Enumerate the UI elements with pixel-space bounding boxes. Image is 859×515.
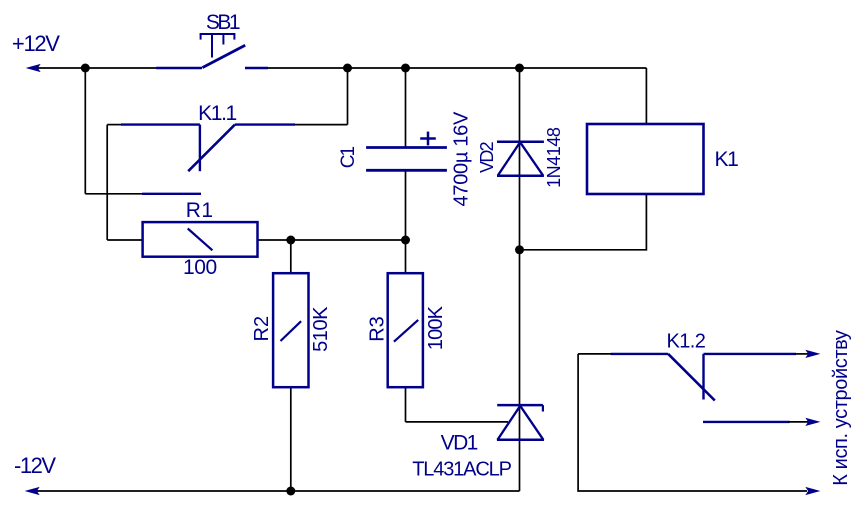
svg-text:510K: 510K [310, 306, 332, 352]
junction top rail at K1.1 branch [343, 64, 352, 73]
svg-text:R3: R3 [367, 316, 389, 342]
resistor R3 [388, 273, 423, 387]
svg-text:R2: R2 [251, 316, 273, 342]
wire vertical to R1 [106, 125, 108, 240]
wire K1.2 NC lead to arrow [795, 353, 808, 355]
svg-text:SB1: SB1 [206, 11, 240, 34]
junction K1 return at VD column [515, 245, 524, 254]
svg-text:К исп. устройству: К исп. устройству [830, 330, 852, 486]
svg-text:K1.2: K1.2 [667, 331, 706, 353]
svg-text:-12V: -12V [14, 453, 56, 478]
wire vertical K1.1 to top rail [347, 68, 349, 125]
power arrow +12V [28, 65, 40, 72]
switch SB1 [156, 34, 268, 68]
junction mid rail at R3 [401, 236, 410, 245]
relay contact K1.1 [121, 125, 295, 194]
svg-text:TL431ACLP: TL431ACLP [412, 458, 511, 480]
junction top rail at left vertical [81, 64, 90, 73]
wire VD2 VD1 vertical column [519, 68, 521, 491]
wire R2 bottom lead [290, 387, 292, 491]
shunt regulator VD1 [497, 405, 544, 440]
svg-text:VD2: VD2 [477, 141, 497, 173]
wire bottom rail [37, 490, 520, 492]
wire R3 bottom lead [405, 387, 407, 422]
svg-text:100: 100 [183, 256, 217, 279]
svg-text:VD1: VD1 [441, 431, 478, 454]
wire C1 upper vertical [405, 68, 407, 148]
svg-text:K1.1: K1.1 [198, 102, 236, 125]
junction bottom rail at R2 [286, 487, 295, 496]
arrow output 3 [807, 488, 819, 495]
wire K1.2 left lead stub [578, 353, 612, 355]
svg-text:4700µ 16V: 4700µ 16V [450, 111, 472, 206]
wire C1 lower vertical [405, 170, 407, 240]
svg-text:K1: K1 [715, 148, 739, 171]
wire R2 top lead [290, 240, 292, 273]
wire K1.2 left vertical [578, 354, 807, 491]
wire K1.1 right lead to C1 column [293, 124, 348, 126]
diode VD2 [497, 142, 544, 176]
wire R1 left lead [107, 239, 142, 241]
relay coil K1 [587, 124, 704, 194]
junction mid rail at R2 [286, 236, 295, 245]
arrow output 1 [807, 351, 819, 358]
wire K1.1 upper lead stub [107, 124, 123, 126]
wire K1.1 lower lead horizontal [85, 193, 144, 195]
wire K1 bottom return [520, 194, 647, 250]
svg-text:1N4148: 1N4148 [544, 127, 564, 188]
wire R3 top lead [405, 240, 407, 273]
capacitor C1 polarity plus [420, 132, 436, 146]
resistor R1 [143, 222, 258, 257]
svg-text:C1: C1 [338, 147, 359, 169]
wire top right corner to K1 [645, 68, 647, 124]
wire top rail right of SB1 [245, 67, 646, 69]
wire middle rail R1 to R3 [258, 239, 406, 241]
svg-text:100K: 100K [425, 305, 447, 350]
svg-text:R1: R1 [186, 199, 214, 222]
resistor R2 [273, 273, 308, 387]
wire left vertical from +12V rail [84, 68, 86, 194]
wire R3 to VD1 ref [406, 421, 509, 423]
junction top rail at C1 [401, 64, 410, 73]
wire K1.2 NO lead to arrow [788, 421, 808, 423]
arrow output 2 [807, 419, 819, 426]
svg-text:+12V: +12V [12, 31, 60, 56]
power arrow -12V [27, 488, 39, 495]
junction top rail at VD2 [515, 64, 524, 73]
wire top rail left [38, 67, 202, 69]
relay contact K1.2 [611, 354, 796, 422]
capacitor C1 [366, 148, 447, 171]
